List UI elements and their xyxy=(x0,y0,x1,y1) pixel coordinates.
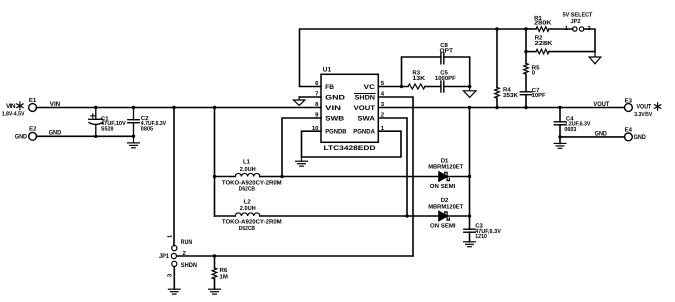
capacitor C8 xyxy=(440,42,454,64)
svg-text:TOKO-A920CY-2R0M: TOKO-A920CY-2R0M xyxy=(222,219,282,226)
svg-text:E3: E3 xyxy=(625,98,633,105)
capacitor C3 xyxy=(464,223,501,242)
svg-text:SWB: SWB xyxy=(325,115,344,122)
svg-text:SHDN: SHDN xyxy=(355,94,376,101)
pin numbers U1 right xyxy=(381,80,385,132)
svg-text:VIN: VIN xyxy=(50,101,61,108)
pin numbers U1 left xyxy=(312,80,319,132)
svg-text:RUN: RUN xyxy=(181,239,193,246)
svg-text:GND: GND xyxy=(634,134,646,141)
junction dots VOUT rail xyxy=(468,106,562,139)
svg-text:S528: S528 xyxy=(101,125,114,132)
resistor R6 xyxy=(212,256,228,289)
svg-text:SHDN: SHDN xyxy=(181,262,197,269)
junction dots L2 row xyxy=(405,214,471,217)
star marker VOUT xyxy=(654,103,660,110)
wire VOUT rail pin 3 to E3 xyxy=(378,107,624,109)
svg-text:ON SEMI: ON SEMI xyxy=(430,183,456,190)
svg-text:1.8V-4.5V: 1.8V-4.5V xyxy=(2,111,25,118)
wire VC pin 5 xyxy=(378,86,408,88)
svg-text:VOUT: VOUT xyxy=(593,101,609,108)
svg-text:VC: VC xyxy=(364,84,376,91)
svg-text:MBRM120ET: MBRM120ET xyxy=(428,163,463,170)
junction dots top rail xyxy=(495,27,527,53)
svg-text:VOUT: VOUT xyxy=(637,104,652,111)
op IC U1 LTC3428EDD box xyxy=(321,67,378,152)
resistor R1 xyxy=(526,15,552,31)
ground below JP1 xyxy=(168,289,180,294)
wire RUN column VIN rail to JP1 pin 1 xyxy=(173,108,175,246)
junction dots L1 row xyxy=(213,175,471,178)
ground below C2 xyxy=(128,136,140,148)
node VOUT output text xyxy=(634,104,652,118)
svg-text:D62CB: D62CB xyxy=(239,225,256,232)
svg-text:353K: 353K xyxy=(503,92,519,99)
resistor R2 xyxy=(526,35,595,54)
jumper JP1 xyxy=(159,234,197,277)
pin labels U1 right xyxy=(353,84,375,136)
svg-text:PGNDA: PGNDA xyxy=(353,128,375,135)
wire GND pin 7 xyxy=(299,96,321,98)
wire JP1 pin 3 to ground xyxy=(173,267,175,290)
wire C8 parallel loop xyxy=(402,57,441,87)
svg-text:U1: U1 xyxy=(323,67,332,74)
svg-text:JP2: JP2 xyxy=(571,18,582,25)
svg-text:1M: 1M xyxy=(220,273,228,280)
svg-text:JP1: JP1 xyxy=(159,253,169,260)
pin labels U1 left xyxy=(325,84,347,136)
svg-text:VOUT: VOUT xyxy=(354,105,375,112)
terminal E1 xyxy=(29,97,37,111)
inductor L1 xyxy=(215,158,282,192)
svg-text:2.0UH: 2.0UH xyxy=(240,205,256,212)
svg-text:1210: 1210 xyxy=(475,233,487,240)
svg-text:GND: GND xyxy=(325,94,345,101)
wire R1 to JP2 xyxy=(549,28,573,30)
ground arrow below JP2 xyxy=(589,52,601,64)
wire C5 to ground node xyxy=(444,86,470,88)
svg-text:R6: R6 xyxy=(220,267,228,274)
svg-text:L1: L1 xyxy=(243,158,251,165)
svg-text:FB: FB xyxy=(325,84,334,91)
svg-text:13K: 13K xyxy=(412,75,426,82)
terminal E2 xyxy=(29,126,37,141)
svg-text:2.0UH: 2.0UH xyxy=(240,166,256,173)
svg-text:MBRM120ET: MBRM120ET xyxy=(428,203,463,210)
junction dots VIN rail xyxy=(94,106,216,138)
terminal E3 xyxy=(625,98,633,112)
svg-text:D62CB: D62CB xyxy=(239,186,256,193)
star marker VIN xyxy=(17,102,23,109)
wire SWB pin 9 to L1 xyxy=(282,118,321,177)
wire VIN rail E1 to U1 pin 8 xyxy=(37,107,322,109)
ground below C4 xyxy=(554,143,566,148)
wire top rail to R1/R2 column xyxy=(525,29,527,52)
resistor R3 xyxy=(408,70,426,89)
wire R3 to C5 xyxy=(425,86,441,88)
wire D1 cathode to VOUT column xyxy=(447,176,469,178)
wire SHDN pin 4 to JP1 row xyxy=(378,97,413,256)
junction dots VC network xyxy=(400,85,472,88)
svg-text:GND: GND xyxy=(15,133,27,140)
wire L column VIN rail to L1/L2 xyxy=(214,108,216,217)
inductor L2 xyxy=(215,199,282,232)
svg-text:5V SELECT: 5V SELECT xyxy=(563,11,593,18)
wire GND row E4 to C4 xyxy=(560,136,625,138)
svg-text:3.3V/5V: 3.3V/5V xyxy=(634,111,652,118)
svg-text:10PF: 10PF xyxy=(532,92,546,99)
capacitor C2 xyxy=(128,108,166,137)
svg-text:TOKO-A920CY-2R0M: TOKO-A920CY-2R0M xyxy=(222,179,282,186)
svg-text:E1: E1 xyxy=(29,97,37,104)
ground arrow at pin 7 xyxy=(294,97,305,105)
capacitor C5 xyxy=(435,70,456,92)
svg-text:D1: D1 xyxy=(441,157,449,164)
ground below PGND xyxy=(296,157,308,166)
svg-text:1000PF: 1000PF xyxy=(435,75,456,82)
node VIN input text xyxy=(2,103,25,118)
resistor R4 xyxy=(495,29,519,108)
svg-text:228K: 228K xyxy=(535,40,554,47)
wire SHDN row JP1 pin 2 xyxy=(177,255,413,257)
terminal E4 xyxy=(625,126,647,141)
svg-text:D2: D2 xyxy=(441,197,449,204)
jumper JP2 xyxy=(563,11,593,32)
ground below R6 xyxy=(209,289,221,294)
svg-text:VIN: VIN xyxy=(325,105,341,112)
capacitor C4 xyxy=(554,108,590,144)
diode D1 MBRM120ET xyxy=(428,157,463,190)
junction dot R6 xyxy=(213,254,216,257)
wire JP2 pin 2 down to R2 xyxy=(584,29,595,52)
wire SWA pin 2 to L2 xyxy=(378,118,407,216)
svg-text:280K: 280K xyxy=(534,20,552,27)
ground below C3 xyxy=(464,242,476,247)
wire PGNDB pin 10 / PGNDA pin 1 loop xyxy=(302,131,402,157)
svg-text:L2: L2 xyxy=(244,199,252,206)
ground arrow at VC network xyxy=(463,87,476,98)
wire L2 to D2 xyxy=(260,215,439,217)
wire L1 to D1 xyxy=(260,176,439,178)
svg-text:ON SEMI: ON SEMI xyxy=(430,222,456,229)
svg-text:PGNDB: PGNDB xyxy=(325,128,347,135)
wire C8 to right side of loop xyxy=(444,57,470,87)
overline SHDN pin label xyxy=(355,93,375,95)
svg-text:E2: E2 xyxy=(29,126,37,133)
capacitor C1 xyxy=(89,108,126,137)
resistor R5 xyxy=(524,52,540,92)
svg-text:E4: E4 xyxy=(625,126,633,133)
wire GND row E2 to C2 xyxy=(37,135,134,137)
svg-text:SWA: SWA xyxy=(357,115,375,122)
svg-text:LTC3428EDD: LTC3428EDD xyxy=(324,145,376,152)
svg-text:GND: GND xyxy=(595,130,607,137)
wire FB pin 6 to top rail xyxy=(300,29,527,87)
svg-text:0603: 0603 xyxy=(564,126,577,133)
wire D2 cathode to VOUT column xyxy=(447,215,469,217)
wire VOUT column to C3 xyxy=(469,108,471,230)
diode D2 MBRM120ET xyxy=(428,197,463,229)
svg-text:GND: GND xyxy=(49,130,62,137)
svg-text:VIN: VIN xyxy=(6,103,16,110)
capacitor C7 xyxy=(520,87,546,108)
svg-text:OPT: OPT xyxy=(440,48,454,55)
svg-text:0805: 0805 xyxy=(141,125,154,132)
